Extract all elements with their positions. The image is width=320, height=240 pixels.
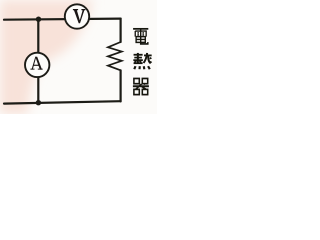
glyph 熱 bbox=[133, 53, 151, 69]
wire left branch vertical (through ammeter) bbox=[37, 19, 39, 102]
white page background bbox=[0, 0, 157, 114]
resistor (heater) zigzag bbox=[108, 42, 122, 70]
wire right vertical lower bbox=[119, 70, 121, 101]
ammeter A bbox=[25, 53, 49, 77]
label 電熱器 (electric heater) hand-drawn glyphs bbox=[133, 29, 152, 95]
wire bottom horizontal bbox=[4, 101, 121, 103]
glyph 電 bbox=[133, 29, 148, 44]
voltmeter V bbox=[65, 4, 89, 28]
junction node top bbox=[36, 17, 41, 22]
wire right vertical upper bbox=[119, 19, 121, 42]
pink tint region (top-left diagonal) bbox=[0, 0, 93, 114]
wire top horizontal bbox=[4, 19, 121, 20]
junction node bottom bbox=[36, 100, 41, 105]
glyph 器 bbox=[133, 78, 149, 94]
